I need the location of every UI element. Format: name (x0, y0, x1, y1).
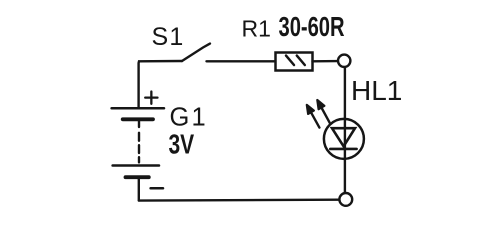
resistor R1 inner slash 1 (286, 56, 294, 65)
LED HL1 light arrow 1 shaft (311, 112, 320, 127)
svg-text:30-60R: 30-60R (278, 12, 344, 43)
svg-text:S1: S1 (152, 23, 185, 51)
node: top terminal circle (338, 55, 350, 67)
svg-text:R1: R1 (242, 16, 271, 42)
battery G1 cell2 short thick plate (negative) (126, 175, 149, 179)
battery G1 cell1 short thick plate (negative) (123, 117, 153, 121)
battery G1 dashed link between cells (138, 120, 140, 127)
wire: top node down through LED to bottom node (344, 68, 346, 193)
battery minus sign (151, 187, 163, 190)
battery plus sign (145, 92, 157, 104)
LED HL1 light arrow 1 head (307, 105, 314, 114)
svg-text:HL1: HL1 (351, 75, 402, 106)
svg-text:3V: 3V (169, 130, 195, 161)
LED HL1 circle (324, 119, 364, 159)
wire: battery negative lead up (138, 179, 140, 201)
switch S1 blade (182, 44, 210, 61)
LED HL1 light arrow 2 shaft (321, 108, 330, 124)
wire: switch right contact to resistor (207, 60, 276, 62)
LED HL1 cathode bar (330, 148, 356, 151)
wire: left vertical from top corner down to battery positive plate (139, 61, 182, 107)
resistor R1 inner slash 2 (297, 56, 305, 65)
LED HL1 light arrow 2 head (317, 100, 324, 109)
wire: resistor to top node (313, 60, 338, 63)
LED HL1 triangle (anode) (332, 128, 355, 146)
resistor R1 body (276, 53, 313, 71)
wire: bottom horizontal from node to battery (139, 198, 339, 201)
svg-text:G1: G1 (170, 104, 208, 132)
battery G1 cell2 long thin plate (positive) (113, 164, 159, 167)
battery G1 cell1 long thin plate (positive) (112, 107, 164, 110)
node: bottom terminal circle (339, 193, 352, 206)
